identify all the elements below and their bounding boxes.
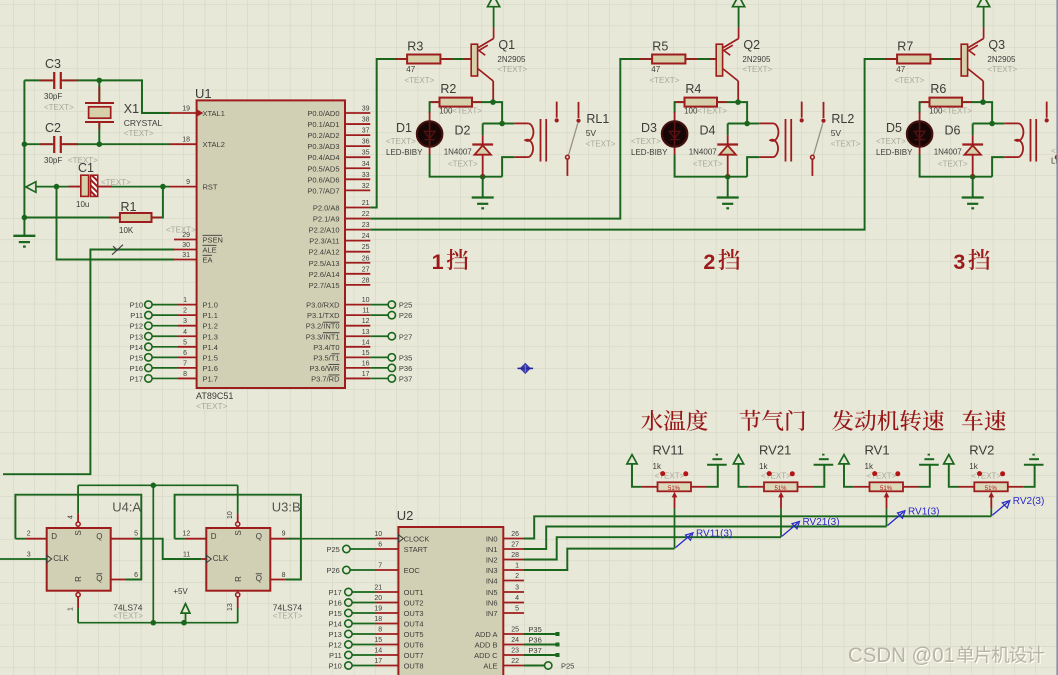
svg-text:28: 28 <box>511 552 519 559</box>
svg-text:100: 100 <box>684 107 698 116</box>
svg-text:39: 39 <box>362 106 370 113</box>
svg-text:P12: P12 <box>328 641 341 650</box>
svg-text:18: 18 <box>182 137 190 144</box>
svg-text:P36: P36 <box>528 636 541 645</box>
svg-text:RV2: RV2 <box>969 443 994 458</box>
svg-text:27: 27 <box>362 266 370 273</box>
svg-text:P3.1/TXD: P3.1/TXD <box>307 311 340 320</box>
svg-text:U4:A: U4:A <box>112 500 141 515</box>
svg-text:51%: 51% <box>880 486 893 492</box>
svg-text:D4: D4 <box>700 123 716 137</box>
svg-text:9: 9 <box>282 531 286 538</box>
svg-text:XTAL2: XTAL2 <box>203 140 225 149</box>
svg-text:IN0: IN0 <box>486 535 498 544</box>
svg-text:<TEXT>: <TEXT> <box>448 159 478 168</box>
svg-text:IN6: IN6 <box>486 599 498 608</box>
svg-text:IN1: IN1 <box>486 545 498 554</box>
svg-text:<TEXT>: <TEXT> <box>761 472 791 481</box>
svg-text:11: 11 <box>183 552 190 559</box>
svg-text:5: 5 <box>183 339 187 346</box>
svg-text:<TEXT>: <TEXT> <box>867 472 897 481</box>
svg-text:5: 5 <box>134 531 138 538</box>
svg-text:3: 3 <box>953 250 965 274</box>
svg-text:<TEXT>: <TEXT> <box>697 107 727 116</box>
svg-text:3: 3 <box>27 552 31 559</box>
svg-text:10: 10 <box>362 297 370 304</box>
svg-text:P13: P13 <box>328 630 341 639</box>
svg-text:P25: P25 <box>399 301 412 310</box>
svg-text:2: 2 <box>183 308 187 315</box>
svg-text:P2.4/A12: P2.4/A12 <box>309 248 340 257</box>
svg-text:D3: D3 <box>641 121 657 135</box>
svg-text:5V: 5V <box>831 128 842 138</box>
svg-text:22: 22 <box>511 658 519 665</box>
svg-text:P2.5/A13: P2.5/A13 <box>309 259 340 268</box>
svg-text:P2.3/A11: P2.3/A11 <box>309 237 339 246</box>
svg-text:P1.1: P1.1 <box>203 311 218 320</box>
svg-text:P1.5: P1.5 <box>203 353 218 362</box>
svg-text:P0.0/AD0: P0.0/AD0 <box>307 109 339 118</box>
svg-text:RV1: RV1 <box>865 443 890 458</box>
svg-text:<TEXT>: <TEXT> <box>44 103 74 112</box>
svg-text:31: 31 <box>182 252 190 259</box>
svg-text:5V: 5V <box>586 128 597 138</box>
svg-text:P2.1/A9: P2.1/A9 <box>313 215 340 224</box>
svg-text:1: 1 <box>432 250 444 274</box>
svg-text:D6: D6 <box>945 123 961 137</box>
svg-text:P3.4/T0: P3.4/T0 <box>313 343 339 352</box>
svg-text:P3.7/RD: P3.7/RD <box>311 374 340 383</box>
svg-text:19: 19 <box>374 606 382 613</box>
svg-text:ADD A: ADD A <box>475 630 498 639</box>
svg-text:<TEXT>: <TEXT> <box>655 472 685 481</box>
svg-text:Q1: Q1 <box>498 38 515 52</box>
svg-text:36: 36 <box>362 139 370 146</box>
svg-text:P35: P35 <box>528 625 541 634</box>
svg-text:D: D <box>211 532 217 541</box>
svg-text:<TEXT>: <TEXT> <box>942 107 972 116</box>
svg-text:7: 7 <box>183 360 187 367</box>
svg-text:8: 8 <box>282 572 286 579</box>
svg-text:P3.3/INT1: P3.3/INT1 <box>306 332 340 341</box>
svg-text:P37: P37 <box>528 646 541 655</box>
svg-text:PSEN: PSEN <box>203 236 223 245</box>
svg-text:OUT6: OUT6 <box>404 641 424 650</box>
svg-text:P1.2: P1.2 <box>203 322 218 331</box>
svg-text:R7: R7 <box>897 40 913 54</box>
svg-text:D1: D1 <box>396 121 412 135</box>
svg-text:P3.0/RXD: P3.0/RXD <box>306 301 340 310</box>
svg-text:24: 24 <box>511 637 519 644</box>
svg-text:OUT4: OUT4 <box>404 620 424 629</box>
svg-text:P35: P35 <box>399 353 412 362</box>
svg-text:AT89C51: AT89C51 <box>196 391 233 401</box>
svg-text:17: 17 <box>374 658 382 665</box>
svg-text:P16: P16 <box>328 599 341 608</box>
svg-text:R: R <box>74 576 83 582</box>
svg-text:CRYSTAL: CRYSTAL <box>124 118 163 128</box>
svg-text:CLK: CLK <box>53 554 69 563</box>
svg-text:100: 100 <box>929 107 943 116</box>
svg-text:P3.2/INT0: P3.2/INT0 <box>306 322 340 331</box>
svg-text:P11: P11 <box>130 311 143 320</box>
svg-text:<TEXT>: <TEXT> <box>876 137 906 146</box>
svg-text:OUT3: OUT3 <box>404 609 424 618</box>
svg-text:6: 6 <box>378 542 382 549</box>
svg-text:13: 13 <box>227 603 234 611</box>
svg-text:IN5: IN5 <box>486 588 498 597</box>
svg-text:5: 5 <box>515 606 519 613</box>
svg-text:10K: 10K <box>119 226 134 235</box>
svg-text:<TEXT>: <TEXT> <box>831 140 861 149</box>
svg-text:15: 15 <box>362 350 370 357</box>
svg-text:P25: P25 <box>561 662 574 671</box>
svg-text:P36: P36 <box>399 364 412 373</box>
svg-text:10u: 10u <box>76 200 89 209</box>
svg-text:51%: 51% <box>668 486 681 492</box>
svg-text:CLOCK: CLOCK <box>404 535 430 544</box>
svg-text:3: 3 <box>515 585 519 592</box>
svg-text:C1: C1 <box>78 161 94 175</box>
svg-text:2N2905: 2N2905 <box>987 55 1016 64</box>
svg-text:P16: P16 <box>130 364 143 373</box>
svg-text:<TEXT>: <TEXT> <box>386 137 416 146</box>
svg-text:P27: P27 <box>399 332 412 341</box>
svg-text:P0.4/AD4: P0.4/AD4 <box>307 153 339 162</box>
svg-text:P2.0/A8: P2.0/A8 <box>313 204 340 213</box>
svg-text:OUT7: OUT7 <box>404 651 424 660</box>
svg-text:26: 26 <box>362 255 370 262</box>
svg-text:16: 16 <box>362 360 370 367</box>
svg-text:P14: P14 <box>328 620 341 629</box>
svg-text:2N2905: 2N2905 <box>497 55 526 64</box>
svg-text:P10: P10 <box>328 662 341 671</box>
svg-text:U3:B: U3:B <box>272 500 301 515</box>
svg-text:S: S <box>74 530 83 535</box>
svg-text:21: 21 <box>374 585 382 592</box>
svg-text:XTAL1: XTAL1 <box>203 109 225 118</box>
svg-text:P15: P15 <box>130 353 143 362</box>
svg-text:10: 10 <box>374 531 382 538</box>
svg-text:P1.7: P1.7 <box>203 374 218 383</box>
svg-text:P0.5/AD5: P0.5/AD5 <box>307 164 339 173</box>
svg-text:P17: P17 <box>130 374 143 383</box>
svg-text:CSDN @01: CSDN @01 <box>848 643 955 667</box>
svg-text:START: START <box>404 545 428 554</box>
svg-text:U2: U2 <box>397 508 414 523</box>
svg-text:38: 38 <box>362 117 370 124</box>
svg-text:EOC: EOC <box>404 566 421 575</box>
svg-text:P0.2/AD2: P0.2/AD2 <box>307 131 339 140</box>
svg-text:OUT5: OUT5 <box>404 630 424 639</box>
svg-text:30pF: 30pF <box>44 92 62 101</box>
svg-text:10: 10 <box>227 511 234 519</box>
svg-text:21: 21 <box>362 200 370 207</box>
svg-text:18: 18 <box>374 616 382 623</box>
svg-text:51%: 51% <box>985 486 998 492</box>
svg-text:12: 12 <box>362 318 370 325</box>
svg-text:ADD B: ADD B <box>475 641 498 650</box>
svg-text:IN4: IN4 <box>486 577 498 586</box>
svg-text:ADD C: ADD C <box>474 651 498 660</box>
svg-text:<TEXT>: <TEXT> <box>938 159 968 168</box>
svg-text:4: 4 <box>68 515 75 519</box>
svg-text:27: 27 <box>511 542 519 549</box>
svg-text:<TEXT>: <TEXT> <box>742 65 772 74</box>
svg-text:<TEXT>: <TEXT> <box>631 137 661 146</box>
svg-text:IN7: IN7 <box>486 609 498 618</box>
svg-text:<TEXT>: <TEXT> <box>124 129 154 138</box>
svg-text:RL2: RL2 <box>831 112 854 126</box>
svg-text:30pF: 30pF <box>44 156 62 165</box>
svg-text:Q: Q <box>96 574 102 583</box>
svg-text:Q3: Q3 <box>988 38 1005 52</box>
svg-text:<TEXT>: <TEXT> <box>586 140 616 149</box>
svg-text:34: 34 <box>362 161 370 168</box>
svg-text:23: 23 <box>511 648 519 655</box>
svg-text:Q2: Q2 <box>743 38 760 52</box>
svg-text:U1: U1 <box>195 86 212 101</box>
svg-text:13: 13 <box>362 329 370 336</box>
svg-text:8: 8 <box>378 627 382 634</box>
svg-text:20: 20 <box>374 595 382 602</box>
svg-text:9: 9 <box>186 179 190 186</box>
svg-text:2: 2 <box>515 573 519 580</box>
svg-text:3: 3 <box>183 318 187 325</box>
svg-text:37: 37 <box>362 128 370 135</box>
svg-text:P3.6/WR: P3.6/WR <box>309 364 340 373</box>
svg-text:R: R <box>234 576 243 582</box>
svg-text:IN2: IN2 <box>486 556 498 565</box>
svg-text:RV11: RV11 <box>653 443 684 458</box>
svg-text:14: 14 <box>362 339 370 346</box>
svg-text:C3: C3 <box>45 57 61 71</box>
svg-text:26: 26 <box>511 531 519 538</box>
svg-text:RV2(3): RV2(3) <box>1013 496 1045 507</box>
svg-text:D2: D2 <box>455 123 471 137</box>
svg-text:RV11(3): RV11(3) <box>696 528 732 539</box>
svg-text:CLK: CLK <box>213 554 229 563</box>
svg-text:17: 17 <box>362 371 370 378</box>
svg-text:33: 33 <box>362 172 370 179</box>
svg-text:R5: R5 <box>652 40 668 54</box>
svg-text:RST: RST <box>203 183 218 192</box>
svg-text:25: 25 <box>362 244 370 251</box>
svg-text:RL1: RL1 <box>586 112 609 126</box>
svg-text:1k: 1k <box>759 462 768 471</box>
svg-text:<TEXT>: <TEXT> <box>895 76 925 85</box>
svg-text:23: 23 <box>362 222 370 229</box>
svg-text:<TEXT>: <TEXT> <box>405 76 435 85</box>
svg-text:X1: X1 <box>124 102 139 116</box>
svg-text:1k: 1k <box>969 462 978 471</box>
svg-text:P37: P37 <box>399 374 412 383</box>
svg-text:Q: Q <box>96 532 102 541</box>
svg-text:Q: Q <box>256 532 262 541</box>
svg-text:1k: 1k <box>865 462 874 471</box>
svg-text:<TEXT>: <TEXT> <box>987 65 1017 74</box>
svg-text:P2.6/A14: P2.6/A14 <box>309 270 340 279</box>
svg-text:LED-BIBY: LED-BIBY <box>631 148 668 157</box>
svg-text:P25: P25 <box>326 545 339 554</box>
svg-text:24: 24 <box>362 233 370 240</box>
svg-text:R3: R3 <box>407 40 423 54</box>
svg-text:<TEXT>: <TEXT> <box>273 612 303 621</box>
svg-text:P1.0: P1.0 <box>203 301 218 310</box>
svg-text:25: 25 <box>511 627 519 634</box>
svg-text:<TEXT>: <TEXT> <box>113 612 143 621</box>
svg-text:RV21: RV21 <box>759 443 791 458</box>
svg-text:100: 100 <box>439 107 453 116</box>
svg-text:IN3: IN3 <box>486 566 498 575</box>
svg-text:19: 19 <box>182 106 190 113</box>
svg-text:P1.3: P1.3 <box>203 332 218 341</box>
svg-text:6: 6 <box>183 350 187 357</box>
svg-text:P1.6: P1.6 <box>203 364 218 373</box>
svg-text:P0.6/AD6: P0.6/AD6 <box>307 175 339 184</box>
svg-text:P3.5/T1: P3.5/T1 <box>313 353 339 362</box>
svg-text:OUT2: OUT2 <box>404 599 424 608</box>
svg-text:LED-BIBY: LED-BIBY <box>876 148 913 157</box>
svg-text:P2.2/A10: P2.2/A10 <box>309 226 340 235</box>
svg-text:<TEXT>: <TEXT> <box>166 226 196 235</box>
svg-text:<TEXT>: <TEXT> <box>693 159 723 168</box>
svg-text:1: 1 <box>515 563 519 570</box>
svg-text:ALE: ALE <box>203 246 217 255</box>
svg-text:P26: P26 <box>399 311 412 320</box>
svg-text:C2: C2 <box>45 121 61 135</box>
svg-text:P15: P15 <box>328 609 341 618</box>
svg-text:P1.4: P1.4 <box>203 343 218 352</box>
svg-text:RV1(3): RV1(3) <box>908 506 940 517</box>
svg-text:R2: R2 <box>440 82 456 96</box>
svg-text:P14: P14 <box>130 343 143 352</box>
svg-text:P26: P26 <box>326 566 339 575</box>
svg-text:4: 4 <box>183 329 187 336</box>
svg-text:1: 1 <box>68 607 75 611</box>
svg-text:<TEXT>: <TEXT> <box>650 76 680 85</box>
svg-text:R6: R6 <box>930 82 946 96</box>
svg-text:D: D <box>51 532 57 541</box>
svg-text:<TEXT>: <TEXT> <box>101 178 131 187</box>
svg-text:P0.3/AD3: P0.3/AD3 <box>307 142 339 151</box>
svg-text:4: 4 <box>515 595 519 602</box>
svg-text:+5V: +5V <box>173 587 188 596</box>
svg-text:47: 47 <box>896 65 905 74</box>
svg-text:1N4007: 1N4007 <box>689 147 718 156</box>
svg-text:R4: R4 <box>685 82 701 96</box>
svg-text:6: 6 <box>134 572 138 579</box>
svg-text:EA: EA <box>203 256 213 265</box>
svg-text:P0.1/AD1: P0.1/AD1 <box>307 120 339 129</box>
svg-text:S: S <box>234 530 243 535</box>
svg-text:Q: Q <box>256 574 262 583</box>
svg-text:2N2905: 2N2905 <box>742 55 771 64</box>
svg-text:28: 28 <box>362 277 370 284</box>
svg-text:R1: R1 <box>121 200 137 214</box>
svg-text:OUT8: OUT8 <box>404 662 424 671</box>
svg-text:47: 47 <box>651 65 660 74</box>
svg-text:1: 1 <box>183 297 187 304</box>
svg-text:<TEXT>: <TEXT> <box>971 472 1001 481</box>
svg-text:30: 30 <box>182 242 190 249</box>
svg-text:ALE: ALE <box>483 662 497 671</box>
svg-text:7: 7 <box>378 563 382 570</box>
svg-text:12: 12 <box>183 531 191 538</box>
svg-text:P12: P12 <box>130 322 143 331</box>
svg-text:<TEXT>: <TEXT> <box>452 107 482 116</box>
svg-text:P10: P10 <box>130 301 143 310</box>
svg-text:2: 2 <box>27 531 31 538</box>
svg-text:1N4007: 1N4007 <box>934 147 963 156</box>
svg-text:22: 22 <box>362 211 370 218</box>
svg-text:15: 15 <box>374 637 382 644</box>
svg-text:<TEXT>: <TEXT> <box>196 401 228 411</box>
svg-text:P17: P17 <box>328 588 341 597</box>
svg-text:D5: D5 <box>886 121 902 135</box>
svg-text:32: 32 <box>362 183 370 190</box>
svg-text:P2.7/A15: P2.7/A15 <box>309 281 340 290</box>
svg-text:1k: 1k <box>653 462 662 471</box>
svg-text:OUT1: OUT1 <box>404 588 424 597</box>
svg-text:LED-BIBY: LED-BIBY <box>386 148 423 157</box>
svg-text:51%: 51% <box>774 486 787 492</box>
svg-text:<TEXT>: <TEXT> <box>497 65 527 74</box>
svg-text:14: 14 <box>374 648 382 655</box>
svg-text:P13: P13 <box>130 332 143 341</box>
svg-text:35: 35 <box>362 150 370 157</box>
svg-text:RV21(3): RV21(3) <box>803 517 840 528</box>
svg-text:P11: P11 <box>329 651 342 660</box>
svg-text:8: 8 <box>183 371 187 378</box>
svg-text:1N4007: 1N4007 <box>444 147 473 156</box>
svg-text:P0.7/AD7: P0.7/AD7 <box>307 186 339 195</box>
svg-text:47: 47 <box>406 65 415 74</box>
svg-text:11: 11 <box>362 308 369 315</box>
svg-text:2: 2 <box>703 250 715 274</box>
